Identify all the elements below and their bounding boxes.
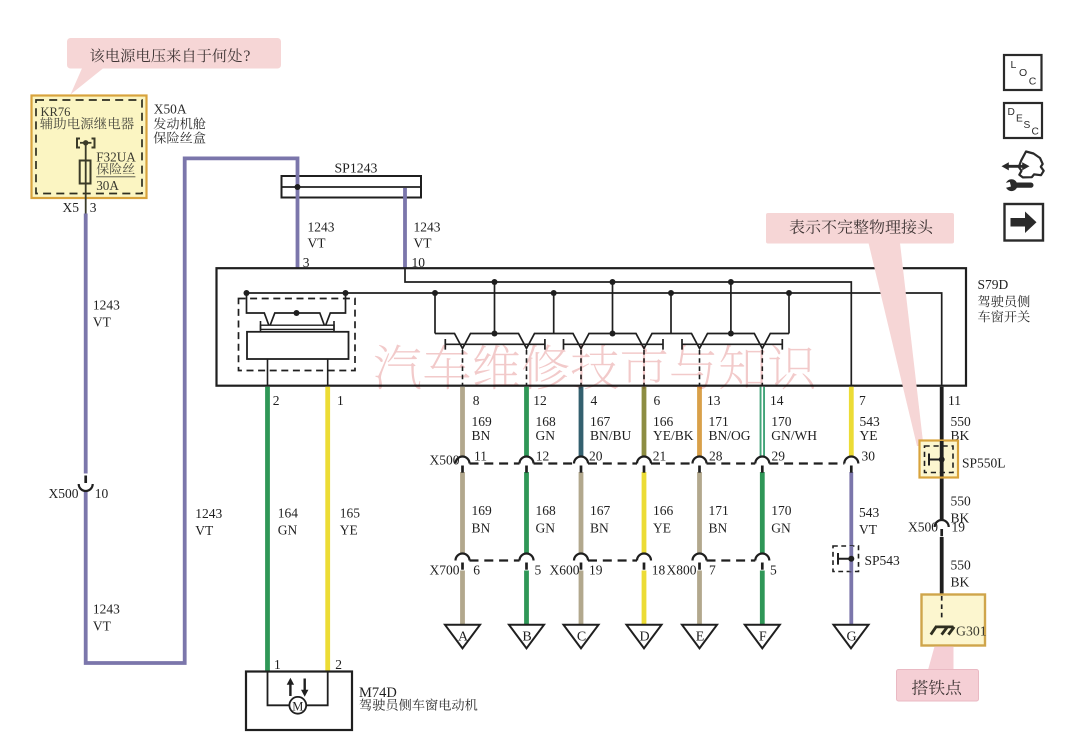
svg-text:VT: VT — [414, 235, 433, 250]
svg-text:8: 8 — [473, 393, 480, 408]
svg-text:1243: 1243 — [93, 298, 120, 313]
svg-text:171: 171 — [709, 414, 729, 429]
svg-text:1: 1 — [337, 393, 344, 408]
svg-text:BN: BN — [472, 428, 491, 443]
svg-text:X800: X800 — [667, 563, 697, 578]
svg-text:C: C — [1032, 127, 1039, 138]
svg-text:VT: VT — [195, 523, 214, 538]
svg-text:S: S — [1024, 120, 1031, 131]
svg-text:13: 13 — [707, 393, 721, 408]
svg-text:18: 18 — [652, 563, 666, 578]
svg-text:YE: YE — [653, 520, 671, 535]
svg-text:BN: BN — [709, 520, 728, 535]
svg-text:VT: VT — [93, 315, 112, 330]
svg-text:6: 6 — [473, 563, 480, 578]
svg-text:170: 170 — [771, 503, 792, 518]
svg-text:5: 5 — [770, 563, 777, 578]
svg-text:550: 550 — [951, 557, 972, 572]
svg-text:21: 21 — [653, 448, 667, 463]
svg-text:G: G — [846, 630, 856, 645]
svg-text:BN: BN — [472, 520, 491, 535]
svg-text:VT: VT — [93, 619, 112, 634]
svg-text:7: 7 — [709, 563, 716, 578]
svg-text:X600: X600 — [550, 563, 580, 578]
svg-text:X50A: X50A — [154, 102, 187, 117]
svg-text:X5: X5 — [63, 200, 80, 215]
svg-text:2: 2 — [273, 393, 280, 408]
svg-text:169: 169 — [472, 414, 493, 429]
svg-text:D: D — [1008, 107, 1015, 118]
svg-text:GN: GN — [536, 428, 556, 443]
svg-text:550: 550 — [951, 414, 972, 429]
svg-text:G301: G301 — [956, 624, 987, 639]
svg-text:KR76: KR76 — [41, 105, 71, 119]
svg-text:30A: 30A — [96, 178, 119, 193]
svg-text:12: 12 — [536, 448, 550, 463]
svg-text:X500: X500 — [908, 519, 938, 534]
svg-text:168: 168 — [536, 414, 557, 429]
svg-text:168: 168 — [536, 503, 557, 518]
svg-text:B: B — [522, 630, 531, 645]
svg-text:1243: 1243 — [414, 219, 441, 234]
svg-text:GN: GN — [536, 520, 556, 535]
svg-text:O: O — [1019, 67, 1027, 79]
svg-text:167: 167 — [590, 414, 611, 429]
svg-text:C: C — [577, 630, 586, 645]
svg-text:7: 7 — [859, 393, 866, 408]
svg-text:E: E — [696, 630, 705, 645]
svg-text:19: 19 — [589, 563, 603, 578]
svg-text:543: 543 — [859, 505, 880, 520]
svg-text:543: 543 — [860, 414, 881, 429]
svg-text:1243: 1243 — [308, 219, 335, 234]
svg-text:165: 165 — [340, 505, 361, 520]
svg-text:BN/BU: BN/BU — [590, 428, 632, 443]
svg-text:D: D — [639, 630, 649, 645]
svg-text:X700: X700 — [430, 563, 460, 578]
svg-text:28: 28 — [709, 448, 723, 463]
svg-text:M: M — [292, 699, 303, 713]
svg-text:14: 14 — [770, 393, 784, 408]
svg-text:6: 6 — [654, 393, 661, 408]
svg-text:164: 164 — [278, 505, 299, 520]
svg-text:F: F — [759, 630, 767, 645]
svg-text:30: 30 — [862, 448, 876, 463]
svg-text:BK: BK — [951, 574, 970, 589]
svg-text:1: 1 — [274, 657, 281, 672]
svg-text:171: 171 — [709, 503, 729, 518]
svg-text:GN/WH: GN/WH — [771, 428, 817, 443]
svg-text:?: ? — [244, 48, 251, 65]
svg-text:4: 4 — [591, 393, 598, 408]
svg-text:SP1243: SP1243 — [335, 161, 378, 176]
svg-text:3: 3 — [90, 200, 97, 215]
svg-text:1243: 1243 — [93, 602, 120, 617]
svg-text:BN: BN — [590, 520, 609, 535]
svg-text:5: 5 — [535, 563, 542, 578]
svg-text:S79D: S79D — [978, 277, 1009, 292]
svg-text:20: 20 — [589, 448, 603, 463]
svg-text:C: C — [1029, 75, 1037, 87]
svg-text:A: A — [458, 630, 469, 645]
svg-text:19: 19 — [952, 519, 966, 534]
svg-text:E: E — [1016, 114, 1023, 125]
svg-text:VT: VT — [308, 235, 327, 250]
svg-text:170: 170 — [771, 414, 792, 429]
svg-text:L: L — [1011, 59, 1017, 71]
svg-text:12: 12 — [533, 393, 547, 408]
svg-text:YE: YE — [340, 523, 358, 538]
svg-text:VT: VT — [859, 522, 878, 537]
svg-text:X500: X500 — [430, 452, 460, 467]
svg-text:BN/OG: BN/OG — [709, 428, 751, 443]
svg-text:11: 11 — [474, 448, 487, 463]
svg-text:550: 550 — [951, 493, 972, 508]
svg-text:167: 167 — [590, 503, 611, 518]
svg-text:GN: GN — [278, 523, 298, 538]
svg-text:166: 166 — [653, 414, 674, 429]
svg-text:YE: YE — [860, 428, 878, 443]
svg-text:GN: GN — [771, 520, 791, 535]
svg-text:29: 29 — [772, 448, 786, 463]
svg-text:2: 2 — [335, 657, 342, 672]
svg-text:169: 169 — [472, 503, 493, 518]
svg-text:SP550L: SP550L — [962, 456, 1006, 471]
svg-text:10: 10 — [95, 486, 109, 501]
svg-text:11: 11 — [948, 393, 961, 408]
svg-text:F32UA: F32UA — [96, 150, 136, 165]
svg-text:166: 166 — [653, 503, 674, 518]
svg-text:X500: X500 — [49, 486, 79, 501]
svg-text:SP543: SP543 — [865, 553, 901, 568]
svg-text:M74D: M74D — [359, 685, 397, 701]
svg-text:YE/BK: YE/BK — [653, 428, 694, 443]
svg-text:1243: 1243 — [195, 506, 222, 521]
